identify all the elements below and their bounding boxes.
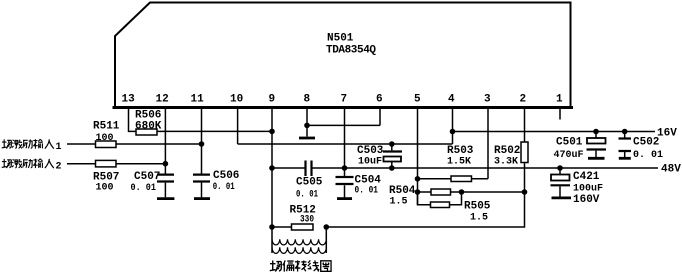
svg-text:1: 1	[56, 142, 62, 153]
capacitor C504 plates	[336, 177, 354, 184]
capacitor C421 lower plate	[551, 184, 571, 186]
resistor R503 body	[451, 176, 472, 182]
wire pin8 to pin6	[307, 124, 380, 126]
capacitor C507 ground	[157, 197, 174, 200]
wire pin2 stub to R502	[524, 108, 526, 142]
capacitor C502 plates	[619, 139, 632, 152]
capacitor C502 stubs	[624, 132, 626, 158]
node pin5 R503 junction	[415, 176, 421, 182]
svg-text:C502: C502	[633, 137, 659, 149]
svg-text:4: 4	[448, 94, 455, 106]
svg-text:9: 9	[269, 94, 276, 106]
svg-text:TDA8354Q: TDA8354Q	[326, 45, 376, 57]
svg-text:3: 3	[484, 94, 491, 106]
node R502 bottom junction	[522, 189, 528, 195]
node pin7 48V junction	[342, 165, 348, 171]
wire R504 body to R502 bottom node	[451, 191, 525, 193]
svg-text:0. 01: 0. 01	[131, 183, 157, 194]
node coil left junction	[269, 224, 275, 230]
wire R503 line pin5 to body	[418, 178, 452, 180]
node pin9 48V junction	[269, 165, 275, 171]
svg-text:C501: C501	[556, 137, 583, 149]
wire R502 bottom down to coil line	[326, 163, 524, 228]
resistor R511 body	[96, 141, 117, 148]
capacitor C506 ground	[194, 197, 210, 200]
wire pin10 stub down to L2	[237, 108, 239, 144]
node C501 rail junction	[593, 129, 599, 135]
resistor R512 body	[292, 224, 314, 230]
svg-text:8: 8	[304, 94, 311, 106]
ground at pin8	[299, 137, 315, 140]
svg-text:10uF: 10uF	[358, 157, 382, 168]
capacitor C421 body rect	[551, 175, 570, 181]
capacitor C503 stubs	[391, 144, 393, 168]
wire 48V rail left part pin9 to C505	[272, 167, 305, 169]
svg-text:C505: C505	[296, 177, 323, 189]
capacitor C421 stubs	[559, 168, 561, 197]
svg-text:12: 12	[156, 94, 169, 106]
svg-text:C507: C507	[134, 171, 160, 183]
wire R504 line pin5 to body	[418, 191, 432, 193]
svg-text:R511: R511	[93, 121, 120, 133]
coil 场偏转线圈 scallops	[272, 239, 326, 253]
node C503 top junction	[389, 141, 395, 147]
svg-text:R504: R504	[389, 185, 416, 197]
svg-text:10: 10	[230, 94, 243, 106]
capacitor C501 stubs	[595, 132, 597, 158]
svg-text:1.5: 1.5	[390, 196, 408, 207]
wire pin1 stub (open)	[559, 108, 561, 120]
svg-text:2: 2	[56, 161, 62, 172]
capacitor C503 top plate	[383, 150, 402, 152]
svg-text:C506: C506	[213, 170, 239, 182]
wire coil left vertical	[271, 227, 273, 253]
resistor R504 body	[431, 189, 451, 195]
node input2 label 场激励输入2	[2, 159, 62, 173]
svg-text:C421: C421	[573, 171, 600, 183]
wire input2 line to R507	[67, 163, 96, 165]
wire pin11 stub down through L2 node to C506	[201, 108, 203, 174]
capacitor C506 stub	[201, 183, 203, 198]
capacitor C421 ground	[552, 196, 572, 199]
svg-text:6: 6	[376, 94, 383, 106]
node input1 label 场激励输入1	[2, 139, 62, 153]
wire pin12 stub down to input2 node	[164, 108, 166, 164]
svg-text:2: 2	[520, 94, 527, 106]
node R505 R504 junction	[459, 189, 465, 195]
svg-text:160V: 160V	[573, 194, 600, 206]
node C502 rail junction	[622, 129, 628, 135]
capacitor C502 ground	[619, 157, 631, 160]
wire pin6 stub	[379, 108, 381, 125]
capacitor C501 lower plate	[587, 148, 607, 150]
node pin9-L1 junction	[269, 129, 275, 135]
svg-text:1: 1	[556, 94, 563, 106]
wire pin3 stub down to R503 line	[487, 108, 489, 179]
wire R512 line to coil left node	[272, 226, 293, 228]
node pin5 R504 junction	[415, 189, 421, 195]
svg-text:5: 5	[414, 94, 421, 106]
svg-text:1.5: 1.5	[470, 213, 488, 224]
svg-text:0. 01: 0. 01	[296, 190, 318, 201]
capacitor C507 stubs	[164, 164, 166, 198]
capacitor C504 stubs	[344, 168, 346, 198]
wire R505 left riser from pin5	[418, 192, 431, 205]
resistor R502 body	[521, 142, 528, 163]
capacitor C501 ground	[588, 157, 605, 160]
node pin11 L2 junction	[199, 141, 205, 147]
resistor R505 body	[431, 202, 450, 208]
wire pin5 stub down to R505 level	[417, 108, 419, 205]
wire R505 right riser	[450, 192, 462, 205]
node coil right junction	[324, 224, 330, 230]
svg-text:0. 01: 0. 01	[633, 150, 663, 161]
wire pin4 stub down and left into L2	[452, 108, 454, 144]
wire pin7 stub down to 48V line	[344, 108, 346, 168]
capacitor C507 plates	[157, 175, 174, 182]
node pin12 input2 junction	[163, 161, 169, 167]
node coil label 场偏转线圈	[270, 260, 331, 271]
svg-text:R505: R505	[464, 201, 491, 213]
resistor R506 body	[136, 129, 157, 135]
svg-text:16V: 16V	[657, 128, 677, 140]
svg-text:0. 01: 0. 01	[213, 182, 235, 193]
wire 16V rail pin4 to 16V label	[453, 131, 656, 133]
node pin4 16V rail junction	[450, 129, 456, 135]
svg-text:1.5K: 1.5K	[447, 157, 471, 168]
svg-text:R502: R502	[494, 145, 520, 157]
node pin8 ground junction	[304, 123, 310, 129]
resistor R507 body	[96, 160, 117, 167]
svg-text:N501: N501	[327, 33, 354, 45]
svg-text:470uF: 470uF	[554, 150, 584, 161]
capacitor C501 body rect	[587, 138, 606, 144]
svg-text:7: 7	[341, 94, 348, 106]
wire R507 to pin12 node	[116, 163, 165, 165]
svg-text:0. 01: 0. 01	[355, 186, 379, 197]
svg-text:3.3K: 3.3K	[494, 157, 518, 168]
IC N501 TDA8354Q body	[114, 3, 572, 108]
wire 48V rail C505 to 48V label	[313, 167, 659, 169]
capacitor C503 body rect	[384, 157, 402, 162]
svg-text:13: 13	[122, 94, 136, 106]
capacitor C504 ground	[337, 197, 352, 200]
wire R503 body to pin3	[472, 178, 489, 180]
svg-text:R503: R503	[447, 145, 474, 157]
node C421 48V junction	[557, 165, 563, 171]
wire input1 line to R511	[67, 143, 96, 145]
svg-text:48V: 48V	[661, 164, 681, 176]
svg-text:C503: C503	[357, 145, 384, 157]
capacitor C505 plates	[306, 161, 312, 177]
svg-text:680K: 680K	[135, 121, 162, 133]
wire R506 right to pin9 node	[157, 130, 272, 132]
wire pin9 stub down to coil node	[271, 108, 273, 227]
svg-text:330: 330	[300, 215, 314, 226]
svg-text:100: 100	[96, 133, 114, 144]
wire L2 right: pin10 to pin4	[238, 143, 453, 145]
wire coil right vertical	[325, 227, 327, 253]
node C503 bottom junction	[389, 165, 395, 171]
svg-text:11: 11	[191, 94, 205, 106]
wire pin8 stub to ground	[306, 108, 308, 137]
wire L2 left: R511 to pin11 node	[116, 143, 202, 145]
wire pin13 stub to R506	[129, 108, 137, 131]
capacitor C506 plates	[193, 175, 210, 182]
svg-text:100: 100	[96, 183, 114, 194]
